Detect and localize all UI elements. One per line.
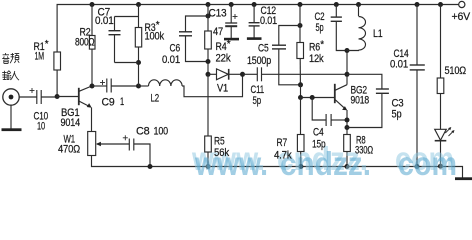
svg-text:*: * — [227, 39, 231, 50]
svg-text:1: 1 — [120, 96, 124, 108]
svg-text:L2: L2 — [151, 93, 160, 105]
svg-text:C6: C6 — [170, 43, 181, 55]
resistor 510 — [438, 2, 443, 7]
svg-text:1500p: 1500p — [247, 55, 271, 67]
svg-text:V1: V1 — [217, 83, 228, 95]
svg-text:5p: 5p — [316, 22, 324, 34]
svg-text:www.: www. — [194, 145, 268, 182]
capacitor C12 — [252, 2, 257, 7]
capacitor C13 electrolytic — [229, 2, 234, 7]
svg-text:L1: L1 — [373, 28, 383, 40]
resistor R5 — [207, 74, 209, 136]
svg-text:47: 47 — [213, 26, 223, 38]
svg-text:9018: 9018 — [351, 95, 370, 107]
wire L2 loop to varactor node — [182, 74, 242, 96]
capacitor C7 — [115, 16, 139, 18]
capacitor C8 — [128, 139, 130, 151]
capacitor C2 — [334, 2, 339, 7]
transistor Q BG2 — [334, 84, 336, 103]
svg-text:0.01: 0.01 — [390, 59, 408, 71]
svg-text:5p: 5p — [392, 109, 402, 121]
node L2 in — [136, 84, 141, 89]
svg-text:10: 10 — [37, 121, 45, 133]
svg-text:C8: C8 — [136, 126, 150, 138]
svg-text:800Ω: 800Ω — [75, 37, 95, 49]
svg-text:0.01: 0.01 — [162, 54, 180, 66]
svg-text:330Ω: 330Ω — [355, 145, 373, 157]
node collector BG1 — [90, 84, 95, 89]
wire jack to C10 — [19, 96, 36, 98]
capacitor C11 — [243, 73, 258, 75]
node emitter/C4 — [345, 118, 350, 123]
svg-text:+6V: +6V — [452, 11, 471, 23]
node B base branch — [300, 85, 302, 98]
svg-text:100: 100 — [154, 126, 169, 138]
capacitor C3 — [347, 74, 382, 89]
svg-text:com: com — [398, 145, 457, 182]
svg-text:100k: 100k — [145, 31, 165, 43]
capacitor C9 — [92, 85, 107, 87]
node C C4 branch — [301, 97, 335, 99]
watermark www.cndzz.com — [191, 140, 457, 182]
capacitor C4 — [312, 98, 326, 121]
node emitter/C3 — [345, 125, 350, 130]
node tank — [345, 48, 350, 53]
inductor L2 — [139, 85, 149, 87]
svg-text:12k: 12k — [309, 53, 324, 65]
svg-text:C13: C13 — [209, 8, 227, 20]
resistor R8 — [344, 135, 351, 152]
svg-text:C4: C4 — [313, 127, 324, 139]
resistor R1 — [54, 52, 61, 70]
terminal +6V — [459, 1, 465, 7]
svg-text:R4: R4 — [216, 41, 227, 53]
svg-text:R5: R5 — [214, 136, 225, 148]
capacitor C10 — [36, 90, 38, 104]
label audio input — [2, 53, 19, 80]
inductor L1 — [356, 2, 361, 7]
wire C10 to node — [41, 96, 57, 98]
svg-text:4.7k: 4.7k — [274, 150, 292, 162]
transistor Q BG1 — [57, 96, 78, 98]
svg-text:15p: 15p — [312, 139, 326, 151]
node base BG1 — [55, 94, 60, 99]
svg-text:5p: 5p — [253, 95, 262, 107]
svg-text:56k: 56k — [214, 147, 230, 159]
capacitor C14 — [415, 2, 420, 7]
node R3 bottom — [136, 60, 141, 65]
svg-text:C9: C9 — [102, 97, 115, 109]
svg-text:470Ω: 470Ω — [58, 144, 80, 156]
ground jack — [10, 105, 12, 128]
svg-text:510Ω: 510Ω — [445, 65, 467, 77]
node collector/C11 — [345, 72, 350, 77]
resistor R3 — [136, 2, 141, 7]
svg-text:1M: 1M — [35, 51, 45, 63]
svg-text:R6: R6 — [309, 42, 320, 54]
svg-text:0.01: 0.01 — [260, 15, 277, 27]
node V1 cathode — [240, 72, 245, 77]
capacitor C5 — [298, 23, 303, 28]
resistor R4 — [206, 2, 211, 7]
wire top supply rail — [57, 5, 458, 97]
svg-text:0.01: 0.01 — [95, 15, 114, 27]
svg-text:R7: R7 — [277, 137, 288, 149]
potentiometer W1 — [88, 132, 96, 156]
resistor R7 — [300, 98, 302, 135]
capacitor C6 — [186, 16, 209, 32]
svg-text:*: * — [45, 39, 49, 50]
svg-text:22k: 22k — [216, 53, 232, 65]
ground right end bar — [455, 177, 472, 180]
LED indicator — [435, 129, 447, 140]
wire bottom ground rail — [92, 156, 463, 179]
svg-text:C5: C5 — [258, 43, 269, 55]
svg-text:*: * — [320, 40, 324, 51]
resistor R6 — [298, 2, 303, 7]
svg-text:9014: 9014 — [61, 117, 81, 129]
connector J audio input — [3, 89, 19, 105]
diode V1 varactor — [208, 73, 217, 75]
resistor R2 — [90, 2, 95, 7]
svg-text:*: * — [156, 20, 160, 31]
node A C5/R6 — [298, 82, 303, 87]
